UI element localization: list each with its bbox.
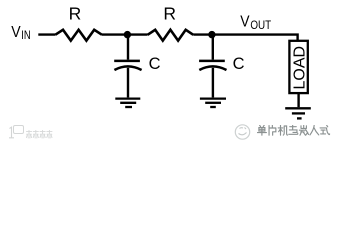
svg-text:C: C	[233, 55, 245, 73]
resistor R1	[55, 30, 102, 41]
watermark right text	[257, 125, 337, 137]
svg-text:V: V	[240, 14, 250, 31]
wire node A to R2	[127, 33, 147, 35]
watermark left text	[26, 130, 56, 139]
svg-text:R: R	[69, 4, 82, 24]
wire R1 to node A	[102, 33, 127, 35]
svg-text:IN: IN	[21, 30, 30, 42]
node VIN label	[11, 24, 31, 42]
svg-text:C: C	[149, 55, 161, 73]
wire node B to load corner	[212, 35, 298, 40]
svg-text:R: R	[163, 4, 176, 24]
ground G2	[200, 99, 226, 107]
wire VIN to R1	[38, 33, 55, 35]
svg-text:OUT: OUT	[250, 18, 271, 32]
svg-text:V: V	[11, 24, 21, 41]
ground G1	[115, 99, 140, 107]
svg-text:LOAD: LOAD	[291, 46, 308, 90]
wire C1 to ground	[127, 68, 129, 98]
resistor R2	[148, 30, 194, 41]
node A junction dot	[124, 31, 131, 38]
capacitor C2 top wire	[212, 35, 214, 60]
watermark right icon	[233, 123, 253, 141]
capacitor C1	[114, 61, 141, 70]
ground G3	[285, 108, 311, 118]
node B junction dot	[208, 31, 215, 38]
wire C2 to ground	[212, 68, 214, 98]
wire R2 to node B	[193, 33, 212, 35]
wire load to ground	[297, 94, 299, 107]
capacitor C2	[199, 61, 226, 70]
capacitor C1 top wire	[127, 35, 129, 60]
node VOUT label	[240, 14, 271, 33]
load resistor box	[289, 41, 307, 93]
watermark left logo	[7, 126, 19, 139]
